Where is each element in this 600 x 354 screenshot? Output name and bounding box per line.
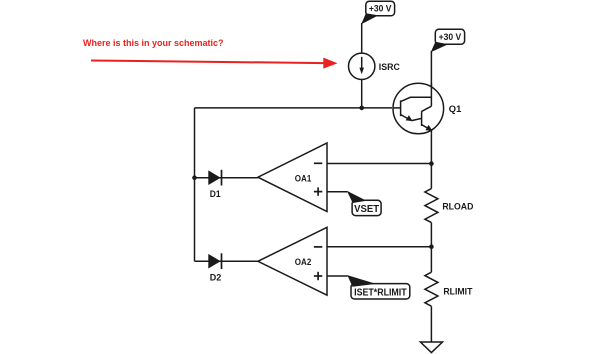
power flag +30 V (Q1 collector) xyxy=(431,29,465,52)
diode D2 xyxy=(209,253,222,282)
wire ISRC to base node xyxy=(361,80,363,108)
node D1 junction xyxy=(192,175,197,180)
wire OA1 non-inverting input xyxy=(327,191,347,193)
wire RLIMIT to ground xyxy=(430,306,432,342)
node RLOAD/RLIMIT junction xyxy=(429,244,434,249)
wire bus to D2 and OA2 output xyxy=(195,260,258,262)
svg-text:Where is this in your schemati: Where is this in your schematic? xyxy=(83,38,224,48)
svg-text:OA1: OA1 xyxy=(295,173,312,183)
svg-text:+30 V: +30 V xyxy=(369,4,392,14)
wire base bus horizontal xyxy=(195,107,393,109)
resistor RLOAD xyxy=(425,189,474,223)
resistor RLIMIT xyxy=(425,272,473,306)
svg-text:ISRC: ISRC xyxy=(379,62,400,72)
wire Q1 emitter down xyxy=(430,134,432,189)
svg-text:OA2: OA2 xyxy=(295,257,312,267)
wire OA1 inverting input xyxy=(327,163,431,165)
svg-text:Q1: Q1 xyxy=(449,104,462,114)
svg-text:D2: D2 xyxy=(210,272,222,282)
wire bus to D1 and OA1 output xyxy=(195,177,258,179)
ground xyxy=(420,342,442,353)
net flag VSET xyxy=(347,191,381,216)
svg-text:ISET*RLIMIT: ISET*RLIMIT xyxy=(354,287,407,298)
svg-text:RLIMIT: RLIMIT xyxy=(443,286,472,296)
annotation arrow xyxy=(91,58,338,69)
net flag ISET*RLIMIT xyxy=(347,275,410,299)
wire flag to ISRC xyxy=(361,23,363,53)
transistor Q1 xyxy=(393,83,461,134)
svg-text:VSET: VSET xyxy=(354,204,379,215)
diode D1 xyxy=(209,170,222,199)
current source ISRC xyxy=(349,53,401,79)
node emitter junction xyxy=(429,161,434,166)
svg-text:RLOAD: RLOAD xyxy=(442,201,473,211)
node base junction xyxy=(359,106,364,111)
wire OA2 inverting input xyxy=(327,246,431,248)
op-amp OA1 xyxy=(258,143,327,212)
power flag +30 V (ISRC) xyxy=(361,1,394,24)
wire OA2 non-inverting input xyxy=(327,275,348,277)
wire flag to Q1 collector xyxy=(430,51,432,106)
wire RLOAD to RLIMIT xyxy=(430,223,432,273)
wire left bus vertical xyxy=(194,108,196,261)
op-amp OA2 xyxy=(258,227,327,295)
svg-text:+30 V: +30 V xyxy=(439,32,462,42)
svg-text:D1: D1 xyxy=(210,189,221,199)
